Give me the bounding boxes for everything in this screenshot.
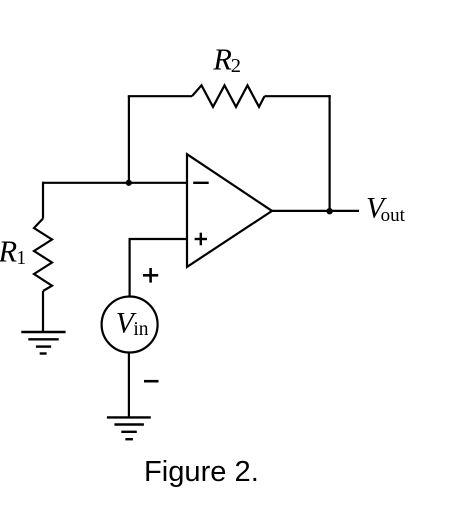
- wire inverting input horizontal: [43, 182, 187, 184]
- wire feedback-left vertical (node to R2 left): [128, 96, 130, 183]
- label Vout: [366, 193, 406, 226]
- svg-text:R: R: [212, 43, 232, 77]
- svg-text:Figure 2.: Figure 2.: [144, 456, 259, 488]
- wire feedback-right vertical (R2 right down to output node): [329, 95, 331, 211]
- label - polarity of Vin: [144, 380, 159, 383]
- svg-text:R: R: [0, 234, 18, 268]
- wire R2 top-left horizontal: [128, 95, 192, 97]
- wire R1 to ground: [42, 291, 44, 332]
- resistor R2: [192, 85, 265, 107]
- op-amp: [187, 154, 272, 267]
- wire R2 top-right horizontal: [265, 95, 331, 97]
- resistor R1: [34, 219, 52, 292]
- source Vin: [102, 297, 158, 353]
- label R1: [0, 234, 26, 269]
- svg-text:1: 1: [16, 248, 26, 269]
- wire left vertical to R1: [42, 182, 44, 219]
- label Vin: [116, 307, 149, 340]
- label R2: [212, 43, 241, 77]
- node junction inverting input: [126, 180, 132, 186]
- wire Vin to ground: [128, 353, 130, 418]
- node junction output: [326, 208, 332, 214]
- svg-text:2: 2: [231, 55, 241, 77]
- svg-text:in: in: [133, 319, 148, 340]
- ground (below R1): [21, 332, 65, 354]
- wire non-inverting input: [130, 239, 187, 297]
- caption Figure 2.: [144, 456, 259, 488]
- ground (below Vin): [107, 417, 151, 439]
- label + polarity of Vin: [143, 268, 158, 283]
- svg-text:out: out: [381, 205, 406, 226]
- wire op-amp output: [271, 210, 359, 212]
